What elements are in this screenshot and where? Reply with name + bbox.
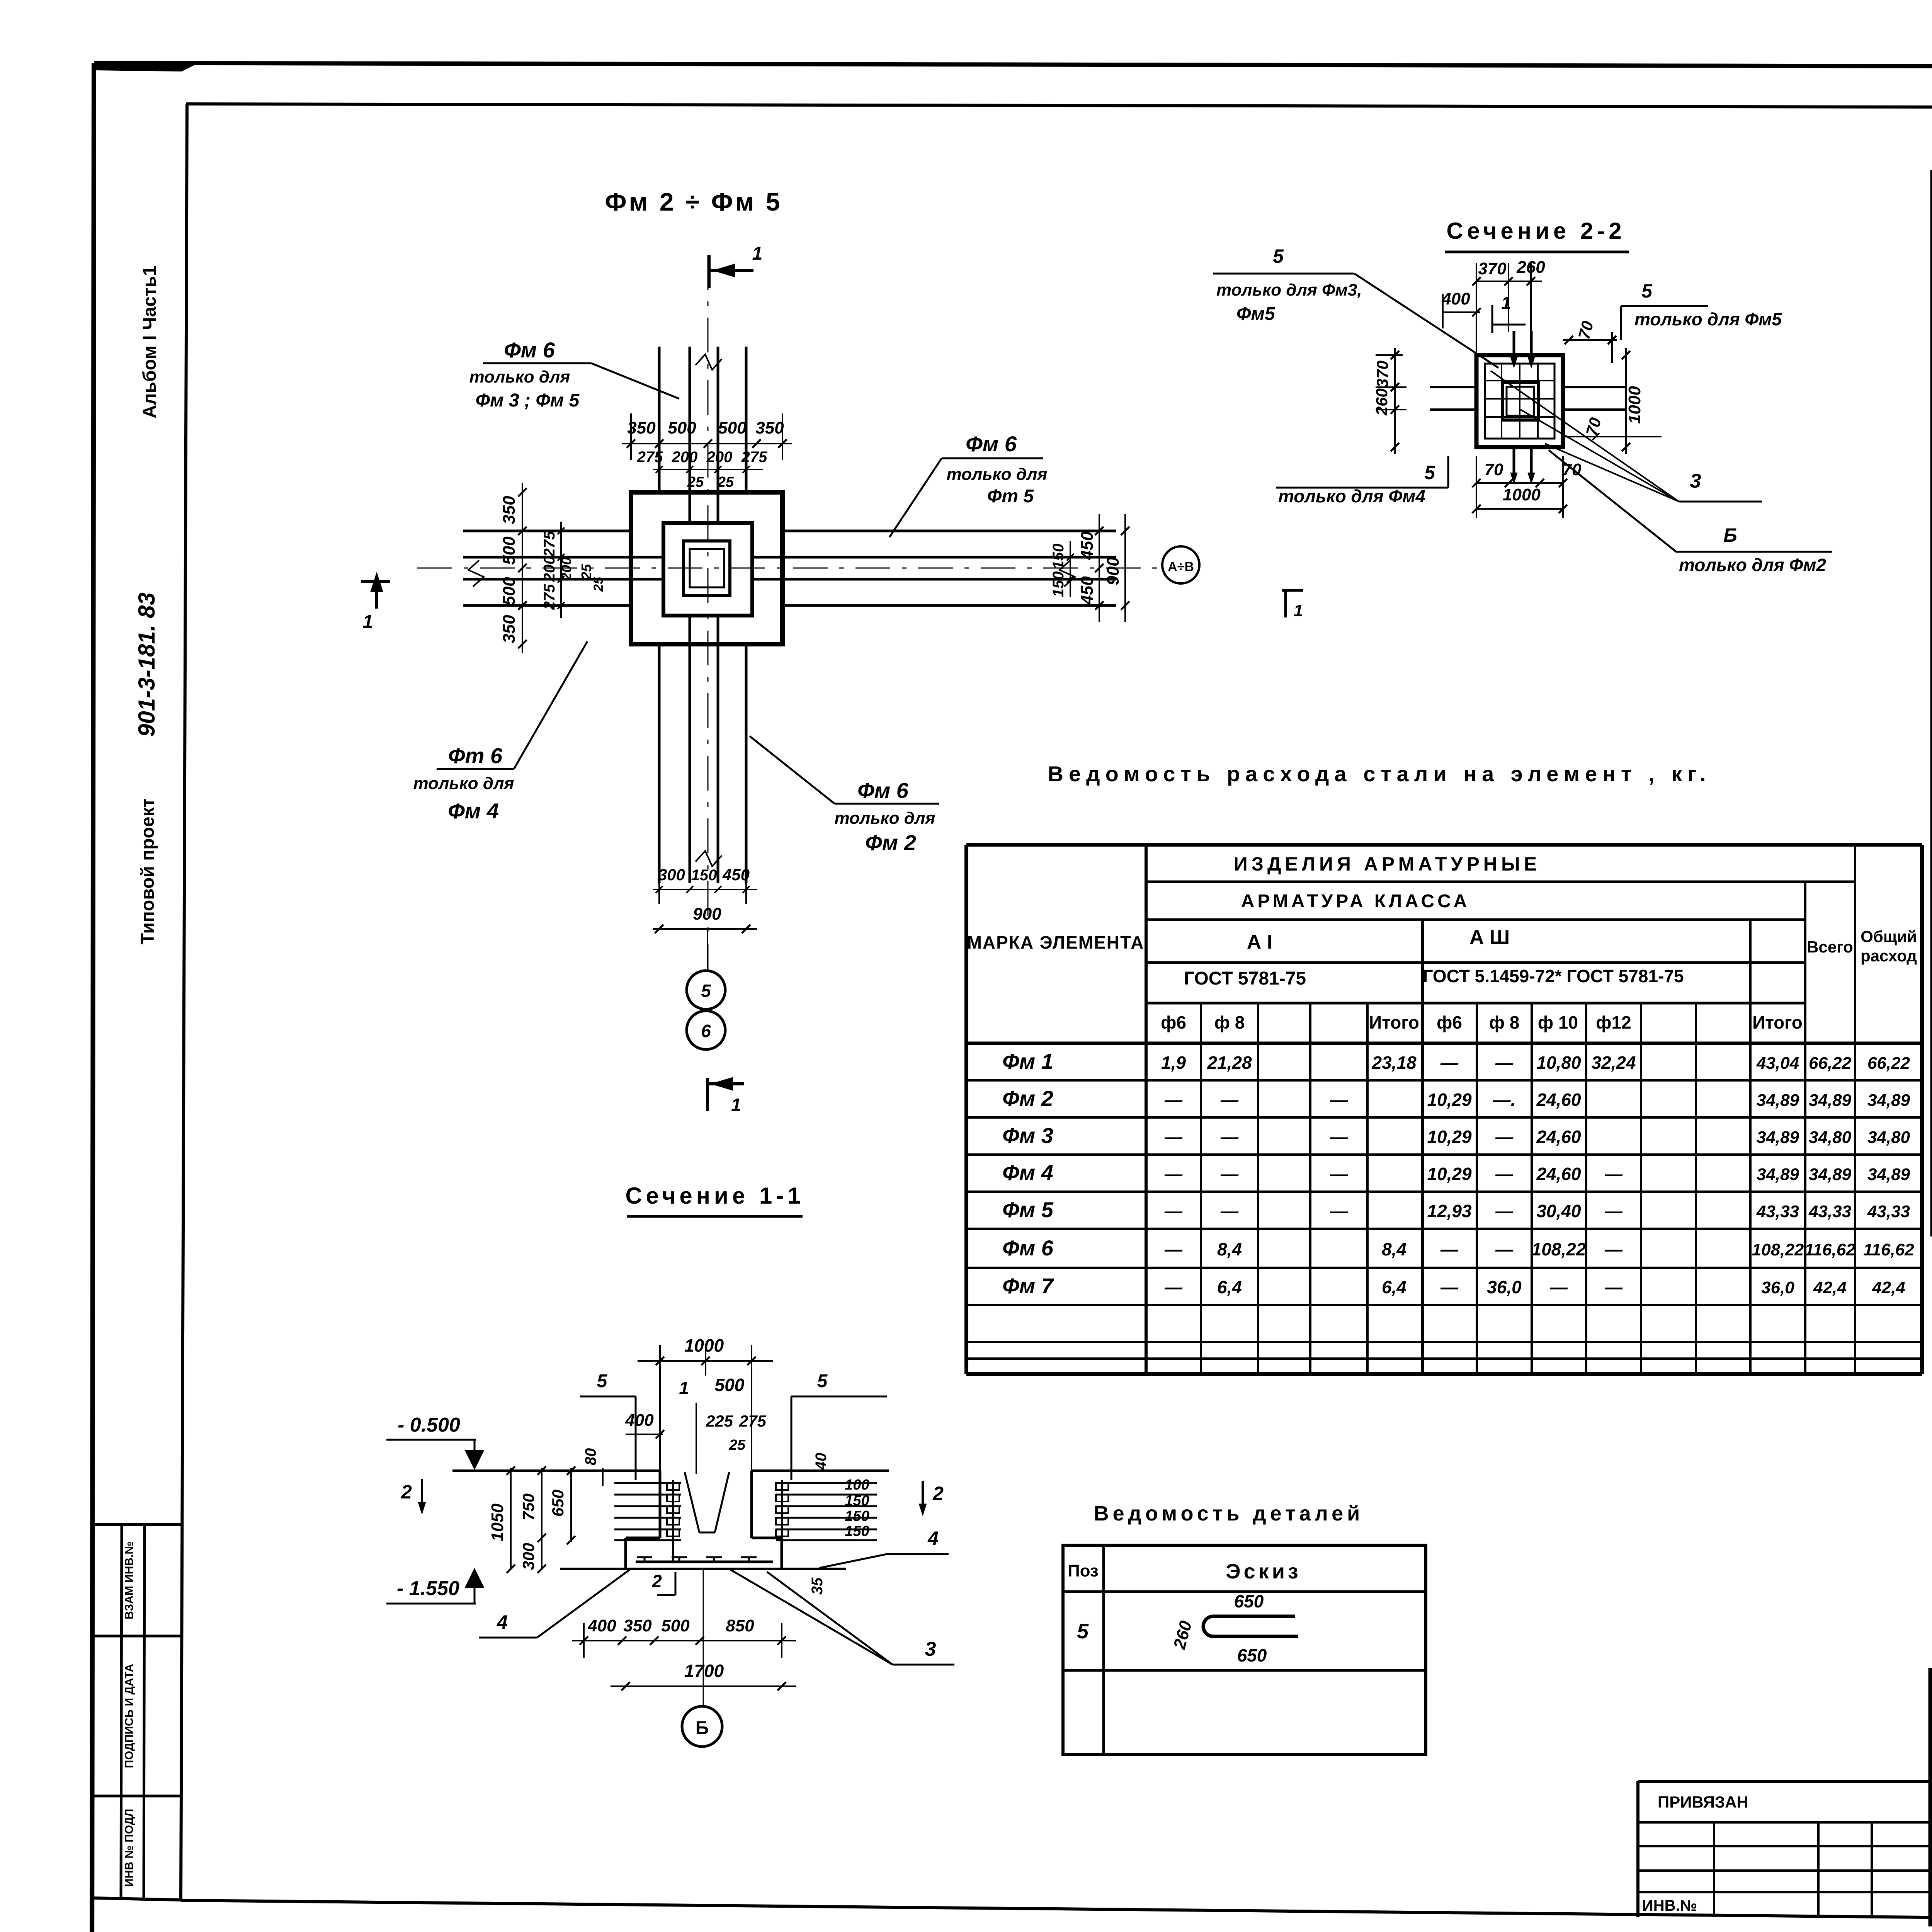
svg-text:500: 500: [718, 418, 747, 437]
svg-text:только для Фм5: только для Фм5: [1634, 309, 1782, 329]
svg-text:Фм 2: Фм 2: [1002, 1086, 1053, 1111]
svg-text:850: 850: [726, 1616, 754, 1635]
svg-text:450: 450: [1078, 531, 1097, 560]
svg-text:750: 750: [519, 1493, 537, 1520]
svg-text:АРМАТУРА КЛАССА: АРМАТУРА КЛАССА: [1241, 891, 1470, 912]
svg-text:275: 275: [741, 449, 767, 466]
svg-text:3: 3: [925, 1638, 936, 1660]
svg-text:3: 3: [1690, 470, 1701, 492]
svg-text:43,04: 43,04: [1756, 1054, 1799, 1073]
svg-text:ф 8: ф 8: [1214, 1012, 1245, 1032]
svg-text:6: 6: [701, 1021, 711, 1041]
svg-text:10,80: 10,80: [1536, 1053, 1581, 1073]
svg-text:—: —: [1604, 1239, 1623, 1259]
svg-text:108,22: 108,22: [1752, 1240, 1804, 1259]
svg-text:Фм 6: Фм 6: [857, 778, 909, 803]
svg-text:80: 80: [582, 1448, 599, 1466]
svg-text:500: 500: [500, 536, 519, 565]
svg-text:901-3-181. 83: 901-3-181. 83: [134, 592, 160, 737]
svg-text:—: —: [1440, 1277, 1459, 1297]
svg-text:Итого: Итого: [1369, 1012, 1419, 1032]
svg-text:—: —: [1164, 1127, 1183, 1147]
svg-text:—: —: [1330, 1127, 1348, 1147]
svg-text:650: 650: [1237, 1645, 1267, 1665]
svg-text:150: 150: [1050, 571, 1067, 597]
svg-text:Итого: Итого: [1752, 1012, 1803, 1032]
svg-text:5: 5: [1077, 1620, 1089, 1643]
svg-text:только для: только для: [413, 774, 514, 793]
svg-text:Фм 2: Фм 2: [865, 830, 916, 855]
svg-text:—: —: [1440, 1239, 1459, 1259]
svg-text:350: 350: [500, 496, 519, 524]
svg-text:—: —: [1220, 1201, 1239, 1221]
svg-text:5: 5: [1424, 462, 1435, 483]
svg-text:400: 400: [1441, 289, 1470, 308]
svg-text:МАРКА ЭЛЕМЕНТА: МАРКА ЭЛЕМЕНТА: [967, 932, 1145, 952]
svg-text:260: 260: [1372, 388, 1391, 416]
svg-text:24,60: 24,60: [1536, 1090, 1581, 1110]
svg-text:1000: 1000: [1503, 485, 1541, 504]
svg-text:Ведомость деталей: Ведомость деталей: [1094, 1502, 1364, 1525]
svg-text:43,33: 43,33: [1808, 1202, 1851, 1221]
svg-text:Б: Б: [696, 1718, 709, 1738]
svg-text:—: —: [1495, 1201, 1514, 1221]
svg-text:34,89: 34,89: [1867, 1165, 1910, 1184]
svg-text:только для Фм2: только для Фм2: [1679, 555, 1826, 575]
svg-text:1: 1: [679, 1378, 689, 1398]
svg-text:34,80: 34,80: [1867, 1128, 1910, 1147]
svg-text:900: 900: [1104, 557, 1122, 585]
svg-text:Фм 1: Фм 1: [1002, 1049, 1053, 1073]
svg-text:5: 5: [817, 1371, 828, 1391]
svg-text:—: —: [1495, 1239, 1514, 1259]
svg-text:—: —: [1330, 1201, 1348, 1221]
svg-text:ГОСТ 5781-75: ГОСТ 5781-75: [1184, 968, 1306, 989]
svg-text:А I: А I: [1247, 931, 1272, 953]
svg-text:—: —: [1330, 1090, 1348, 1110]
svg-text:А Ш: А Ш: [1469, 926, 1510, 949]
svg-text:—: —: [1164, 1201, 1183, 1221]
svg-text:36,0: 36,0: [1761, 1278, 1794, 1297]
svg-text:ГОСТ 5.1459-72* ГОСТ 5781-75: ГОСТ 5.1459-72* ГОСТ 5781-75: [1423, 966, 1684, 986]
svg-text:275: 275: [637, 449, 663, 466]
svg-text:450: 450: [722, 866, 750, 884]
svg-text:Фм 2 ÷ Фм 5: Фм 2 ÷ Фм 5: [605, 187, 782, 216]
svg-text:70: 70: [1575, 319, 1597, 341]
svg-text:42,4: 42,4: [1872, 1278, 1905, 1297]
svg-text:70: 70: [1485, 460, 1503, 479]
svg-text:150: 150: [845, 1523, 869, 1539]
svg-text:только для Фм3,: только для Фм3,: [1216, 281, 1362, 299]
svg-text:1: 1: [752, 243, 763, 264]
svg-text:Фм 6: Фм 6: [1002, 1236, 1054, 1260]
svg-text:34,80: 34,80: [1809, 1128, 1852, 1147]
svg-text:30,40: 30,40: [1536, 1201, 1581, 1221]
svg-text:34,89: 34,89: [1757, 1128, 1799, 1147]
svg-text:5: 5: [1641, 280, 1653, 302]
svg-text:Фм 5: Фм 5: [1002, 1197, 1054, 1222]
svg-text:—: —: [1495, 1164, 1514, 1184]
svg-text:10,29: 10,29: [1427, 1164, 1472, 1184]
svg-text:только для Фм4: только для Фм4: [1278, 486, 1425, 506]
svg-text:ф 10: ф 10: [1538, 1012, 1578, 1032]
svg-text:Фм 3: Фм 3: [1002, 1123, 1053, 1148]
svg-text:24,60: 24,60: [1536, 1127, 1581, 1147]
svg-text:Фм 4: Фм 4: [1002, 1160, 1053, 1185]
svg-text:1: 1: [731, 1095, 741, 1115]
svg-text:Фт 6: Фт 6: [448, 743, 503, 768]
svg-text:Фм 6: Фм 6: [966, 432, 1017, 456]
svg-text:2: 2: [932, 1483, 944, 1504]
svg-text:—: —: [1495, 1053, 1514, 1073]
svg-text:225: 225: [706, 1412, 733, 1430]
svg-text:—: —: [1164, 1090, 1183, 1110]
svg-text:—: —: [1495, 1127, 1514, 1147]
svg-text:25: 25: [687, 474, 704, 490]
svg-text:42,4: 42,4: [1813, 1278, 1847, 1297]
svg-text:Эскиз: Эскиз: [1226, 1560, 1301, 1583]
svg-text:200: 200: [706, 449, 733, 466]
svg-text:1000: 1000: [1625, 386, 1644, 424]
svg-text:400: 400: [587, 1616, 616, 1635]
svg-text:—: —: [1604, 1164, 1623, 1184]
svg-text:1000: 1000: [684, 1335, 724, 1355]
svg-text:275: 275: [541, 584, 558, 610]
svg-text:ф6: ф6: [1161, 1012, 1186, 1032]
svg-text:1050: 1050: [488, 1503, 507, 1541]
svg-text:Сечение 1-1: Сечение 1-1: [625, 1183, 804, 1209]
svg-text:25: 25: [591, 577, 606, 592]
svg-text:4: 4: [927, 1527, 939, 1549]
svg-text:650: 650: [549, 1490, 567, 1517]
svg-text:350: 350: [755, 418, 784, 437]
svg-text:24,60: 24,60: [1536, 1164, 1581, 1184]
svg-text:34,89: 34,89: [1809, 1165, 1852, 1184]
svg-text:Общий: Общий: [1861, 927, 1917, 946]
svg-text:370: 370: [1478, 259, 1507, 278]
svg-text:- 0.500: - 0.500: [398, 1414, 460, 1436]
svg-text:ИЗДЕЛИЯ АРМАТУРНЫЕ: ИЗДЕЛИЯ АРМАТУРНЫЕ: [1234, 853, 1541, 875]
svg-text:70: 70: [1582, 416, 1604, 438]
svg-text:—: —: [1220, 1090, 1239, 1110]
svg-text:Поз: Поз: [1068, 1561, 1099, 1580]
svg-text:200: 200: [558, 557, 574, 581]
svg-text:—: —: [1549, 1277, 1568, 1297]
svg-text:43,33: 43,33: [1756, 1202, 1799, 1221]
svg-text:2: 2: [651, 1571, 662, 1591]
svg-text:36,0: 36,0: [1487, 1277, 1522, 1297]
svg-text:ф6: ф6: [1437, 1012, 1462, 1032]
svg-text:Всего: Всего: [1807, 938, 1853, 956]
svg-text:6,4: 6,4: [1217, 1277, 1242, 1297]
svg-text:2: 2: [401, 1481, 412, 1503]
svg-text:Фм 6: Фм 6: [504, 338, 555, 362]
svg-text:расход: расход: [1861, 947, 1917, 965]
svg-text:500: 500: [661, 1616, 690, 1635]
svg-text:8,4: 8,4: [1382, 1239, 1406, 1259]
svg-text:1: 1: [1294, 601, 1303, 620]
svg-text:200: 200: [672, 449, 698, 466]
svg-text:500: 500: [500, 577, 519, 605]
svg-text:—: —: [1440, 1053, 1459, 1073]
svg-text:—: —: [1164, 1239, 1183, 1259]
svg-text:40: 40: [813, 1453, 830, 1471]
svg-text:35: 35: [809, 1577, 826, 1595]
svg-text:ф12: ф12: [1596, 1012, 1631, 1032]
svg-text:300: 300: [519, 1543, 537, 1570]
svg-text:450: 450: [1078, 576, 1097, 605]
svg-text:275: 275: [541, 531, 558, 557]
svg-text:А÷В: А÷В: [1168, 560, 1194, 574]
svg-text:150: 150: [845, 1493, 869, 1509]
svg-text:—: —: [1604, 1201, 1623, 1221]
svg-text:10,29: 10,29: [1427, 1127, 1472, 1147]
svg-text:Фт 5: Фт 5: [987, 486, 1034, 507]
svg-text:200: 200: [541, 556, 558, 582]
svg-text:Сечение 2-2: Сечение 2-2: [1446, 218, 1625, 244]
svg-text:34,89: 34,89: [1867, 1091, 1910, 1110]
svg-text:1700: 1700: [684, 1661, 724, 1681]
svg-text:Альбом I Часть1: Альбом I Часть1: [139, 265, 160, 418]
svg-text:500: 500: [715, 1375, 745, 1395]
svg-text:12,93: 12,93: [1427, 1201, 1472, 1221]
svg-text:только для: только для: [835, 809, 935, 828]
svg-text:Фм 7: Фм 7: [1002, 1274, 1054, 1298]
svg-text:350: 350: [627, 418, 656, 437]
svg-text:ф 8: ф 8: [1489, 1012, 1520, 1032]
svg-text:370: 370: [1373, 361, 1391, 388]
svg-text:10,29: 10,29: [1427, 1090, 1472, 1110]
svg-text:34,89: 34,89: [1809, 1091, 1852, 1110]
svg-text:43,33: 43,33: [1867, 1202, 1910, 1221]
svg-text:—.: —.: [1493, 1090, 1516, 1110]
svg-text:5: 5: [597, 1371, 608, 1391]
svg-text:Б: Б: [1723, 524, 1737, 546]
svg-text:Фм5: Фм5: [1236, 304, 1276, 324]
svg-text:400: 400: [625, 1411, 654, 1430]
svg-text:ИНВ.№: ИНВ.№: [1642, 1897, 1697, 1914]
svg-text:900: 900: [693, 905, 721, 923]
svg-text:350: 350: [623, 1616, 652, 1635]
svg-text:5: 5: [701, 981, 711, 1001]
svg-text:ВЗАМ ИНВ.№: ВЗАМ ИНВ.№: [123, 1541, 136, 1619]
svg-text:150: 150: [691, 867, 717, 884]
svg-text:150: 150: [1050, 544, 1067, 570]
svg-text:6,4: 6,4: [1382, 1277, 1406, 1297]
svg-text:Фм 3 ; Фм 5: Фм 3 ; Фм 5: [476, 390, 580, 411]
svg-text:32,24: 32,24: [1591, 1053, 1636, 1073]
svg-text:—: —: [1220, 1127, 1239, 1147]
svg-text:500: 500: [668, 418, 696, 437]
svg-text:8,4: 8,4: [1217, 1239, 1242, 1259]
svg-text:Фм 4: Фм 4: [448, 799, 499, 823]
svg-text:21,28: 21,28: [1207, 1053, 1252, 1073]
svg-text:25: 25: [717, 474, 734, 490]
svg-text:ИНВ № ПОДЛ: ИНВ № ПОДЛ: [123, 1809, 136, 1887]
svg-text:116,62: 116,62: [1804, 1240, 1855, 1259]
svg-text:108,22: 108,22: [1532, 1239, 1586, 1259]
svg-text:66,22: 66,22: [1809, 1054, 1852, 1073]
svg-text:—: —: [1604, 1277, 1623, 1297]
svg-text:260: 260: [1170, 1619, 1196, 1651]
svg-text:150: 150: [845, 1508, 869, 1524]
svg-text:350: 350: [500, 615, 519, 643]
svg-text:5: 5: [1273, 245, 1284, 267]
svg-text:66,22: 66,22: [1867, 1054, 1910, 1073]
svg-text:1: 1: [363, 612, 373, 632]
svg-text:1: 1: [1501, 293, 1511, 313]
svg-text:1,9: 1,9: [1161, 1053, 1186, 1073]
svg-text:ПОДПИСЬ И ДАТА: ПОДПИСЬ И ДАТА: [123, 1664, 136, 1768]
svg-text:275: 275: [739, 1412, 767, 1430]
svg-text:4: 4: [497, 1611, 508, 1633]
svg-text:—: —: [1164, 1164, 1183, 1184]
svg-text:только для: только для: [469, 367, 570, 386]
svg-text:34,89: 34,89: [1757, 1091, 1799, 1110]
svg-text:100: 100: [845, 1477, 869, 1493]
svg-text:только для: только для: [947, 465, 1048, 484]
svg-text:23,18: 23,18: [1371, 1053, 1417, 1073]
svg-text:- 1.550: - 1.550: [397, 1577, 459, 1600]
svg-text:34,89: 34,89: [1757, 1165, 1799, 1184]
svg-text:300: 300: [658, 866, 685, 884]
svg-text:—: —: [1220, 1164, 1239, 1184]
svg-text:—: —: [1330, 1164, 1348, 1184]
svg-text:25: 25: [729, 1437, 746, 1453]
svg-text:Ведомость расхода стали на: Ведомость расхода стали на элемент , кг.: [1048, 762, 1711, 786]
svg-text:ПРИВЯЗАН: ПРИВЯЗАН: [1658, 1793, 1748, 1811]
svg-text:Типовой проект: Типовой проект: [138, 798, 158, 944]
svg-text:650: 650: [1234, 1591, 1264, 1611]
svg-text:116,62: 116,62: [1863, 1240, 1914, 1259]
svg-text:—: —: [1164, 1277, 1183, 1297]
